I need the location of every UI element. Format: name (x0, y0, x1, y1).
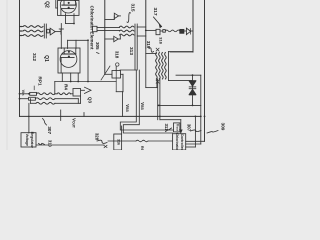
svg-text:R6: R6 (140, 146, 144, 150)
svg-text:317: 317 (152, 7, 158, 15)
svg-text:Q2: Q2 (44, 1, 50, 8)
svg-text:305: 305 (95, 42, 100, 50)
svg-text:Q3: Q3 (88, 97, 93, 104)
svg-text:Chlorinator Element: Chlorinator Element (89, 6, 94, 50)
svg-text:316: 316 (117, 139, 121, 145)
svg-text:318: 318 (114, 51, 119, 59)
svg-text:R4: R4 (64, 84, 69, 90)
svg-text:313: 313 (128, 47, 134, 55)
svg-text:328: 328 (95, 133, 100, 141)
svg-text:318: 318 (159, 37, 164, 44)
svg-text:Controller: Controller (180, 134, 184, 150)
svg-text:RP1: RP1 (37, 76, 43, 86)
svg-text:VBB: VBB (125, 104, 130, 112)
svg-text:312: 312 (31, 53, 37, 61)
svg-text:Q1: Q1 (43, 55, 49, 62)
svg-text:Vin: Vin (21, 90, 25, 97)
svg-text:309: 309 (221, 123, 226, 131)
svg-text:315: 315 (130, 3, 136, 11)
svg-text:307: 307 (47, 126, 52, 134)
svg-text:Voltage: Voltage (25, 134, 29, 146)
svg-text:Chlorinator: Chlorinator (175, 133, 179, 150)
svg-text:310: 310 (47, 140, 52, 148)
svg-text:Vout: Vout (176, 124, 180, 131)
svg-text:Regulator: Regulator (30, 132, 34, 149)
svg-text:VBB: VBB (140, 102, 145, 110)
svg-text:VOUT: VOUT (72, 118, 77, 128)
